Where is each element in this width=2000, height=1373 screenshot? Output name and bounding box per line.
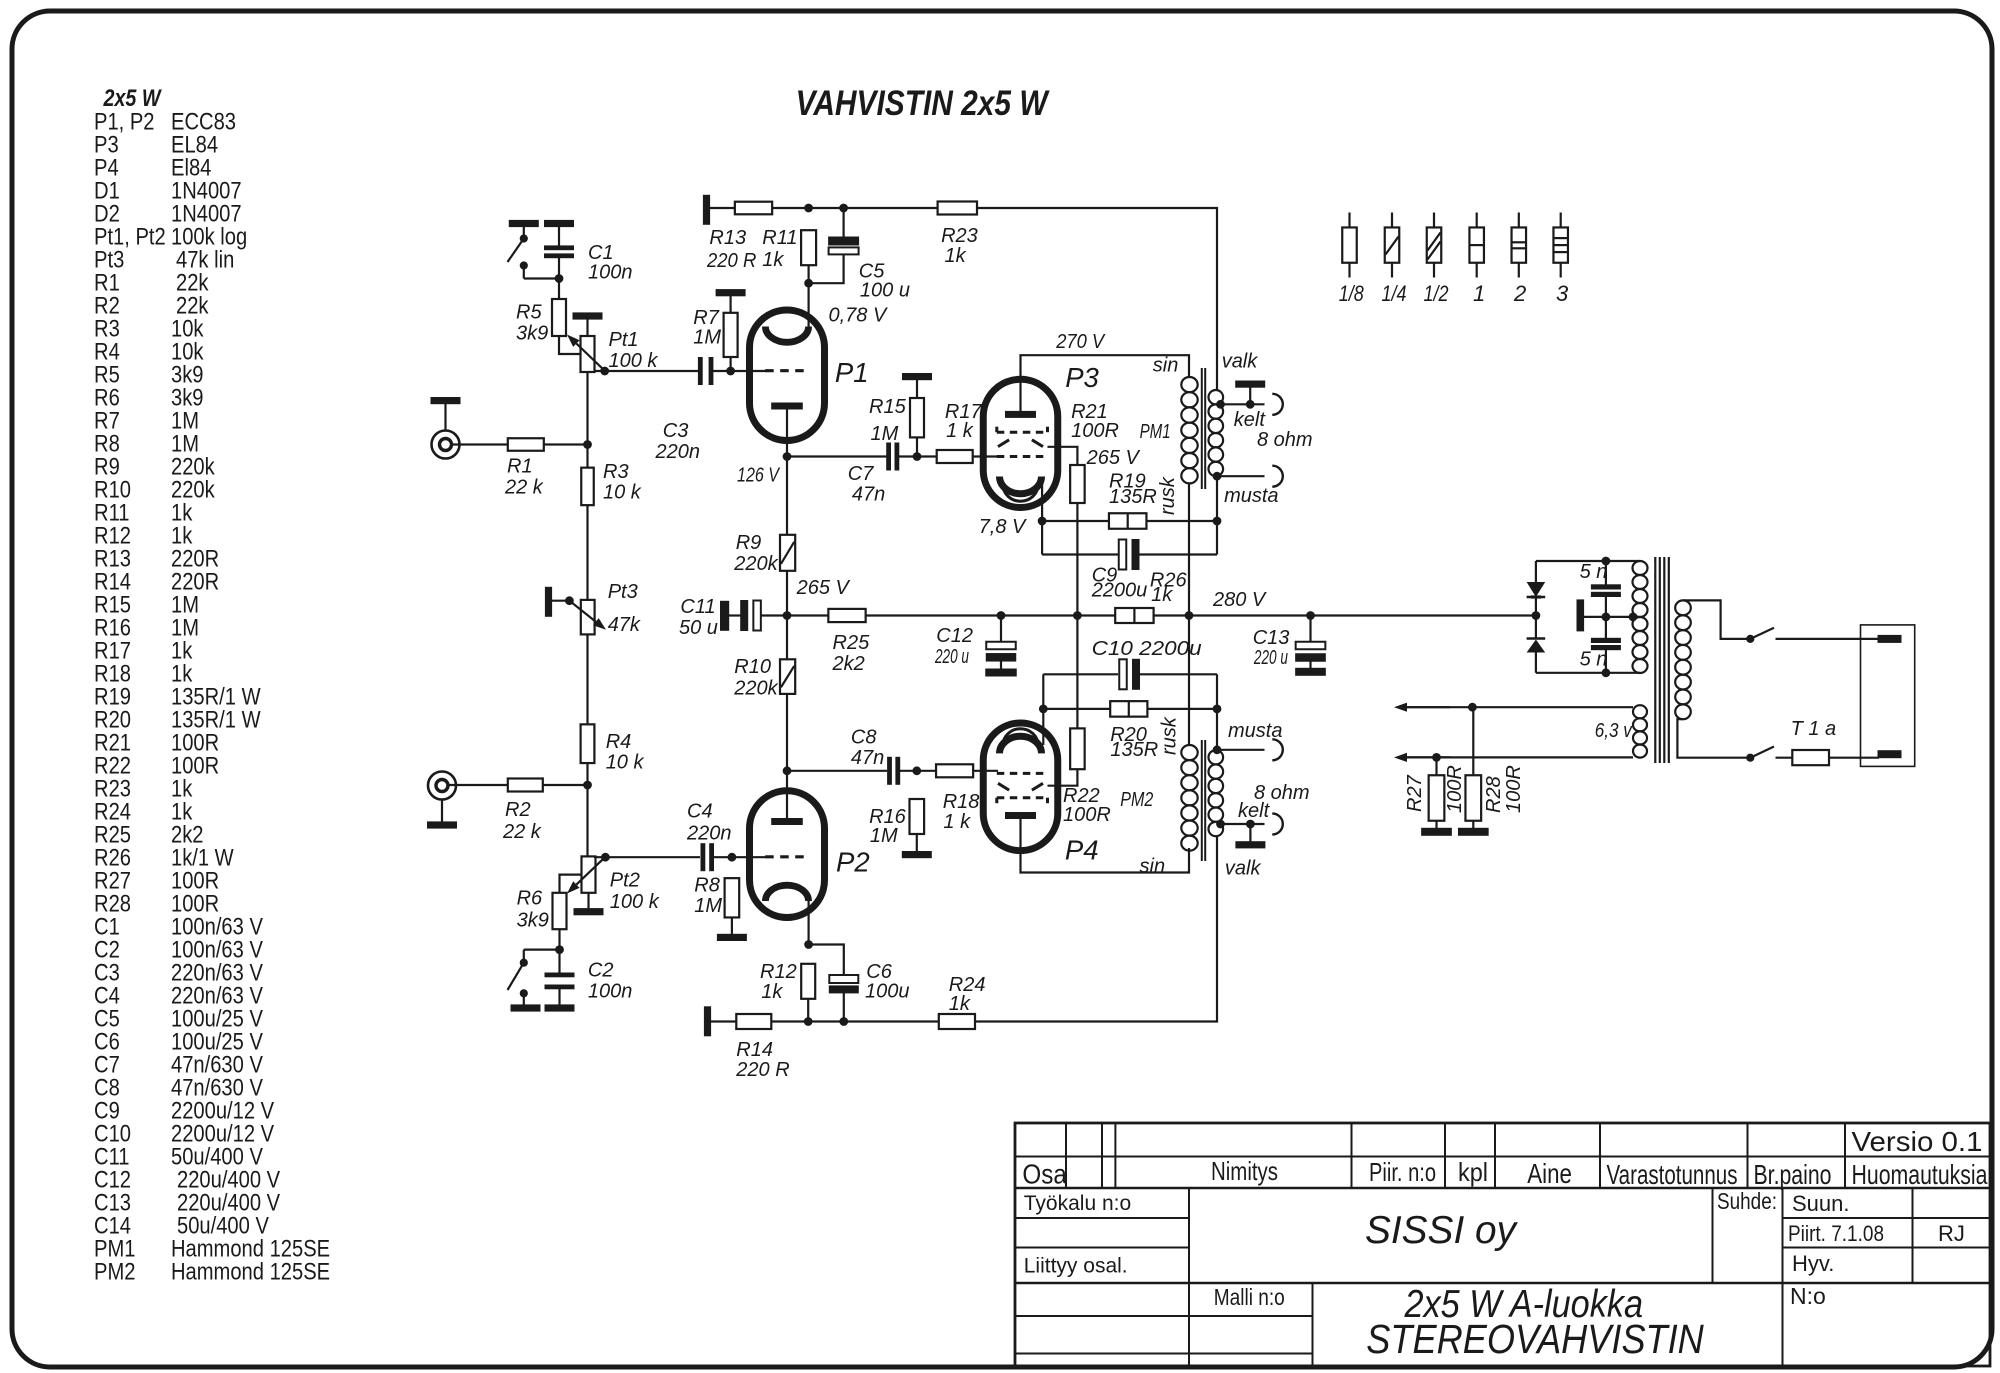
ground bar left of R14 (704, 1007, 710, 1036)
switch S2 (523, 950, 525, 961)
node C6 rail (840, 1018, 848, 1026)
wire anode node to C8 (787, 770, 887, 772)
node C13 (1307, 612, 1315, 620)
legend resistor 1/8 W (1348, 213, 1350, 228)
P4 screen lead to R22 (1048, 769, 1078, 786)
wire gnd to Pt3 wiper (552, 600, 570, 602)
svg-text:Hyv.: Hyv. (1792, 1251, 1834, 1276)
resistor R14 (736, 1014, 771, 1029)
svg-text:Malli n:o: Malli n:o (1214, 1284, 1285, 1310)
wire P2 anode node (783, 767, 791, 775)
svg-text:135R: 135R (1109, 486, 1157, 508)
wire S4 to fuse (1776, 757, 1793, 759)
PM2 secondary (1209, 750, 1224, 764)
wiper node Pt3 (566, 597, 574, 605)
PM1 primary bottom lead rusk (1188, 483, 1190, 615)
svg-text:R10: R10 (734, 656, 771, 678)
legend resistor 1 W (1476, 213, 1478, 228)
wire Pt1 to C3 (594, 370, 699, 372)
svg-text:7,8 V: 7,8 V (979, 516, 1027, 538)
svg-text:R28: R28 (1483, 776, 1505, 813)
node R28 heater (1469, 703, 1477, 711)
svg-text:8 ohm: 8 ohm (1254, 782, 1310, 804)
resistor R10 (780, 659, 795, 694)
wire R6 to C2 node (558, 929, 560, 949)
node cathode P2 (805, 941, 813, 949)
capacitor C8 (888, 757, 892, 784)
svg-text:sin: sin (1153, 355, 1179, 377)
resistor R18 (936, 764, 973, 777)
ground above Pt1 (573, 313, 602, 319)
svg-text:Suhde:: Suhde: (1717, 1188, 1777, 1214)
svg-text:R8: R8 (694, 875, 720, 897)
svg-text:47k: 47k (608, 614, 641, 636)
P2 cathode lead (807, 900, 809, 945)
svg-text:100 u: 100 u (860, 280, 910, 302)
svg-text:135R: 135R (1110, 739, 1158, 761)
heater line 2 (1407, 756, 1633, 758)
svg-text:rusk: rusk (1159, 716, 1181, 755)
node C12 (997, 612, 1005, 620)
svg-text:2k2: 2k2 (832, 653, 865, 675)
ground bar center tap (1577, 600, 1584, 631)
PM1 core (1201, 368, 1203, 489)
pentode P4 (983, 723, 1058, 851)
ground bar left of Pt3 (545, 587, 551, 616)
ground above input jack J1 (431, 398, 460, 404)
wire S1 to C1 node (524, 277, 559, 279)
svg-text:100u: 100u (865, 980, 910, 1002)
potentiometer Pt1 (581, 336, 595, 372)
wire R7 to grid (729, 357, 731, 371)
svg-text:R13: R13 (709, 227, 746, 249)
ground rail ch2 (771, 1020, 939, 1022)
svg-text:100n: 100n (588, 262, 633, 284)
svg-text:1/4: 1/4 (1382, 281, 1407, 306)
svg-text:R15: R15 (869, 396, 907, 418)
svg-text:C8: C8 (851, 727, 877, 749)
svg-text:100 k: 100 k (609, 350, 659, 372)
node screens rail (1074, 612, 1082, 620)
node A1 junction (584, 441, 592, 449)
svg-text:220k: 220k (733, 553, 778, 575)
svg-text:musta: musta (1224, 485, 1278, 507)
wire fuse to plug (1829, 757, 1879, 759)
svg-text:P2: P2 (836, 847, 870, 878)
resistor R16 (910, 799, 925, 834)
wire kelt2 to jack (1221, 823, 1265, 825)
svg-text:C3: C3 (663, 420, 689, 442)
svg-text:R1: R1 (507, 456, 533, 478)
wire C10 to musta2 (1216, 674, 1218, 709)
svg-text:Huomautuksia: Huomautuksia (1852, 1159, 1988, 1190)
ground at kelt (1236, 381, 1265, 387)
svg-text:T 1 a: T 1 a (1791, 718, 1837, 740)
node R16 top (913, 767, 921, 775)
svg-text:P3: P3 (1065, 362, 1099, 393)
center tap wire to winding (1606, 616, 1634, 618)
input jack J1 (432, 431, 460, 459)
svg-text:8 ohm: 8 ohm (1257, 429, 1313, 451)
svg-text:1/2: 1/2 (1424, 281, 1449, 306)
resistor R17 (937, 450, 973, 463)
capacitor C6 (809, 945, 844, 976)
resistor R25 in rail (787, 614, 828, 616)
capacitor C10 bypass loop (1043, 673, 1118, 675)
rail R25 to R26 (866, 614, 1115, 616)
HV winding bottom line (1536, 672, 1640, 674)
resistor R4 (581, 724, 595, 763)
svg-text:R23: R23 (941, 225, 978, 247)
svg-text:126 V: 126 V (737, 465, 780, 487)
svg-text:265 V: 265 V (796, 577, 851, 599)
svg-text:220 R: 220 R (706, 250, 756, 272)
ground below Pt2 (587, 893, 589, 909)
svg-text:R6: R6 (517, 888, 543, 910)
resistor R2 (508, 779, 543, 792)
svg-text:Br.paino: Br.paino (1754, 1159, 1832, 1190)
wiper node Pt2 (602, 853, 610, 861)
capacitor C11 (729, 614, 741, 616)
PM2 core (1201, 740, 1203, 861)
ground above switch S1 (509, 220, 538, 226)
svg-text:R3: R3 (603, 461, 629, 483)
svg-text:2: 2 (1513, 281, 1526, 306)
svg-text:6,3 v: 6,3 v (1595, 720, 1633, 742)
kelt tap node (1217, 400, 1225, 408)
P1 anode lead (786, 406, 788, 457)
svg-text:R2: R2 (505, 799, 531, 821)
svg-text:Pt1: Pt1 (609, 329, 639, 351)
svg-text:100R: 100R (1503, 765, 1525, 813)
svg-text:100n: 100n (588, 981, 633, 1003)
P3 cathode lead (1041, 484, 1043, 555)
wire J2 to R2 (448, 784, 508, 786)
capacitor C1 (545, 246, 574, 250)
node C2/R6 junction (556, 946, 564, 954)
svg-text:5 n: 5 n (1580, 649, 1608, 671)
kelt2 tap node (1217, 820, 1225, 828)
svg-text:Pt3: Pt3 (608, 581, 638, 603)
wire R19 to musta node (1147, 520, 1218, 522)
svg-text:100 k: 100 k (610, 891, 660, 913)
musta line down to cathode rail (1216, 476, 1218, 554)
wire C1 node to R5 (558, 279, 560, 300)
wire R5 to Pt1 wiper (559, 336, 581, 354)
wire Pt1 to main line (586, 372, 588, 445)
resistor R11 (801, 230, 816, 265)
T1 6.3V winding (1633, 705, 1647, 718)
svg-text:C7: C7 (848, 463, 874, 485)
node R27 heater (1433, 754, 1441, 762)
resistor R9 (780, 535, 795, 571)
node A2 junction (584, 781, 592, 789)
wire R2 to node A2 (543, 784, 588, 786)
svg-text:280 V: 280 V (1212, 589, 1267, 611)
svg-text:1k: 1k (949, 993, 971, 1015)
node R11 top (805, 204, 813, 212)
svg-text:1k: 1k (761, 981, 783, 1003)
input jack J2 (428, 772, 456, 800)
feedback line ch2 to valk2 (975, 836, 1217, 1022)
svg-text:50 u: 50 u (679, 617, 718, 639)
capacitor C3 (698, 358, 702, 385)
svg-text:STEREOVAHVISTIN: STEREOVAHVISTIN (1366, 1316, 1704, 1362)
resistor R5 (552, 299, 566, 336)
output jack musta (1272, 466, 1283, 487)
resistor R10 wire top (786, 616, 788, 660)
svg-text:Pt2: Pt2 (610, 870, 640, 892)
wire R18 to P4 grid (973, 770, 998, 772)
resistor R19 1W (1109, 513, 1147, 529)
svg-text:1/8: 1/8 (1339, 281, 1365, 306)
cathode rail to R19 (1042, 520, 1109, 522)
node musta2 rail (1213, 705, 1221, 713)
wiper node Pt1 (601, 367, 609, 375)
svg-text:R18: R18 (943, 791, 980, 813)
svg-text:musta: musta (1228, 720, 1282, 742)
mains plug (1861, 625, 1915, 767)
resistor R3 (581, 468, 594, 506)
capacitor C7 (887, 443, 891, 470)
svg-text:Nimitys: Nimitys (1211, 1156, 1278, 1186)
PM1 secondary (1209, 390, 1224, 404)
T1 primary top lead (1683, 600, 1749, 639)
svg-text:kelt: kelt (1234, 409, 1267, 431)
wire R9 to 265V rail (786, 571, 788, 616)
node musta/rail (1213, 517, 1221, 525)
svg-text:10 k: 10 k (603, 482, 642, 504)
transformer PM1 primary (1181, 377, 1197, 392)
svg-text:3: 3 (1556, 281, 1569, 306)
svg-text:Aine: Aine (1527, 1158, 1572, 1189)
wire 126V to C7 (787, 455, 887, 457)
feedback line to valk (977, 208, 1217, 390)
svg-text:22 k: 22 k (502, 821, 542, 843)
resistor R22 (1070, 728, 1085, 769)
ground below C13 (1296, 668, 1326, 675)
T1 primary bottom lead (1677, 719, 1748, 758)
heater line 1 (1407, 706, 1633, 708)
ground above C1 (545, 220, 574, 226)
svg-text:3k9: 3k9 (516, 323, 548, 345)
svg-text:kpl: kpl (1458, 1157, 1488, 1187)
svg-text:220 u: 220 u (1253, 647, 1288, 669)
ground below R16 (916, 834, 918, 851)
node C5 top (840, 204, 848, 212)
ground below C12 (986, 669, 1017, 676)
fuse T1a (1792, 750, 1829, 765)
svg-text:Hammond 125SE: Hammond 125SE (171, 1259, 330, 1286)
wire kelt tap to jack (1221, 403, 1265, 405)
resistor R24 (939, 1014, 975, 1029)
resistor R7 (724, 313, 738, 357)
svg-text:P1: P1 (835, 357, 869, 388)
output jack kelt2 (1272, 814, 1283, 835)
svg-text:1M: 1M (694, 895, 722, 917)
legend resistor 2 W (1518, 213, 1520, 228)
svg-text:1 k: 1 k (946, 420, 974, 442)
wire musta to jack (1217, 475, 1265, 477)
resistor R6 (553, 893, 567, 929)
svg-text:1k: 1k (1151, 584, 1173, 606)
P3 screen lead to R21 (1048, 447, 1078, 465)
node R15 bottom (913, 453, 921, 461)
T1 primary winding (1675, 600, 1691, 615)
svg-text:Piirt. 7.1.08: Piirt. 7.1.08 (1788, 1221, 1884, 1246)
wire R20 to musta2 node (1147, 708, 1217, 710)
node R8 top (728, 853, 736, 861)
svg-text:valk: valk (1225, 858, 1262, 880)
node R12 rail (804, 1018, 812, 1026)
svg-text:Osa: Osa (1022, 1159, 1067, 1190)
svg-text:Versio 0.1: Versio 0.1 (1852, 1126, 1983, 1157)
svg-text:47n: 47n (851, 747, 884, 769)
svg-text:R9: R9 (736, 532, 762, 554)
wire R4 to node A2 (586, 763, 588, 785)
svg-text:220n: 220n (655, 441, 701, 463)
node musta2 secondary (1213, 746, 1221, 754)
svg-text:5 n: 5 n (1580, 561, 1608, 583)
rail R26 to rectifier (1154, 614, 1536, 616)
node 126V to R9 (786, 457, 788, 535)
svg-text:R12: R12 (760, 961, 797, 983)
wire J1 to R1 (452, 443, 508, 445)
ground at kelt2 (1249, 824, 1251, 842)
svg-text:220 u: 220 u (934, 646, 969, 668)
svg-text:rusk: rusk (1157, 476, 1179, 515)
diode D2 (1535, 616, 1537, 639)
ground below switch S2 (523, 993, 525, 1005)
svg-text:R27: R27 (1404, 774, 1426, 812)
cathode rail ch2 to R20 (1043, 708, 1110, 710)
wire R12 to gnd rail (807, 999, 809, 1022)
output jack musta2 (1272, 739, 1283, 760)
mains switch S3 (1747, 635, 1754, 642)
resistor R27 (1435, 757, 1437, 775)
resistor R8 (725, 878, 740, 917)
legend resistor 3 W (1560, 213, 1562, 228)
svg-text:SISSI oy: SISSI oy (1365, 1209, 1518, 1252)
wire R21 to rail (1076, 503, 1078, 616)
svg-text:R5: R5 (516, 302, 542, 324)
output jack kelt (1272, 394, 1283, 415)
resistor R1 (508, 438, 544, 451)
svg-text:3k9: 3k9 (517, 910, 549, 932)
node 265V (783, 612, 791, 620)
resistor R20 1W (1110, 701, 1147, 717)
svg-text:P4: P4 (1065, 835, 1099, 866)
svg-text:1M: 1M (870, 825, 898, 847)
svg-text:sin: sin (1140, 856, 1166, 878)
svg-text:0,78 V: 0,78 V (829, 305, 888, 327)
wire Pt3 to R4 (586, 634, 588, 724)
wire C4 to P2 grid (713, 856, 766, 858)
svg-text:Varastotunnus: Varastotunnus (1607, 1159, 1738, 1190)
svg-text:VAHVISTIN 2x5 W: VAHVISTIN 2x5 W (796, 83, 1051, 123)
wire R15 to node (916, 437, 918, 456)
resistor R15 (910, 398, 924, 437)
potentiometer Pt2 (582, 856, 596, 892)
svg-text:C10 2200u: C10 2200u (1092, 638, 1202, 660)
svg-text:C13: C13 (1253, 627, 1290, 649)
svg-text:22 k: 22 k (504, 477, 544, 499)
svg-text:Työkalu n:o: Työkalu n:o (1024, 1192, 1131, 1215)
svg-text:265 V: 265 V (1086, 447, 1141, 469)
svg-text:N:o: N:o (1790, 1283, 1826, 1309)
diode D1 (1535, 599, 1537, 616)
svg-text:1M: 1M (693, 327, 721, 349)
svg-text:R4: R4 (606, 731, 632, 753)
capacitor 5n upper (1605, 561, 1607, 585)
svg-text:100R: 100R (1444, 765, 1466, 813)
capacitor C2 (558, 950, 560, 973)
capacitor C13 (1309, 616, 1311, 642)
ground above R7 (716, 290, 745, 296)
svg-text:220 R: 220 R (735, 1059, 789, 1081)
resistor R12 (801, 964, 815, 999)
node PM primaries B+ (1185, 612, 1193, 620)
potentiometer Pt3 (581, 600, 595, 635)
svg-text:Suun.: Suun. (1792, 1191, 1850, 1216)
title block table (1015, 1123, 1990, 1366)
ground below input jack J2 (441, 800, 443, 823)
wire R11 to cathode node (807, 265, 809, 283)
resistor R26 1W in rail (1115, 608, 1153, 623)
wire R17 to P3 grid (973, 455, 998, 457)
P1 cathode lead (807, 283, 809, 328)
svg-text:1 k: 1 k (943, 811, 971, 833)
wire C7 to R17 (899, 455, 937, 457)
musta2 wire down from rail (1216, 709, 1218, 750)
wire R22 to rail (1076, 616, 1078, 729)
resistor R23 (938, 202, 977, 215)
wire C3 to P1 grid (713, 370, 767, 372)
resistor R21 (1070, 465, 1085, 503)
ground bar left of R13 (703, 195, 709, 224)
svg-text:Liittyy osal.: Liittyy osal. (1024, 1255, 1128, 1278)
transformer PM2 primary (1181, 745, 1197, 760)
svg-text:100R: 100R (1071, 420, 1119, 442)
svg-text:C2: C2 (588, 960, 614, 982)
svg-text:RJ: RJ (1938, 1221, 1965, 1246)
svg-text:47n: 47n (852, 484, 885, 506)
node cathode P4 rail (1039, 705, 1047, 713)
svg-text:C4: C4 (687, 801, 713, 823)
svg-text:C12: C12 (936, 625, 973, 647)
triode P2 (750, 791, 825, 918)
transformer T1 HV winding (1633, 561, 1648, 575)
wire S3 to plug (1776, 638, 1880, 640)
svg-text:PM2: PM2 (1120, 789, 1153, 811)
P4 anode lead to sin line (1021, 816, 1190, 873)
node cathode P1 (805, 279, 813, 287)
svg-text:1M: 1M (871, 423, 899, 445)
wire R10 to anode node (786, 694, 788, 771)
wire Pt2 wiper to R6 (560, 875, 582, 893)
HV winding top line (1536, 560, 1640, 562)
wire gnd to R13 (710, 207, 735, 209)
capacitor C5 (842, 208, 844, 238)
node center tap line (1602, 613, 1610, 621)
capacitor C12 (1000, 616, 1002, 642)
switch S1 (520, 235, 527, 242)
capacitor C4 (701, 844, 705, 871)
capacitor C9 bypass loop (1042, 553, 1118, 555)
legend resistor 1/2 W (1433, 213, 1435, 228)
svg-text:Piir. n:o: Piir. n:o (1369, 1157, 1436, 1187)
triode P1 (750, 310, 825, 441)
